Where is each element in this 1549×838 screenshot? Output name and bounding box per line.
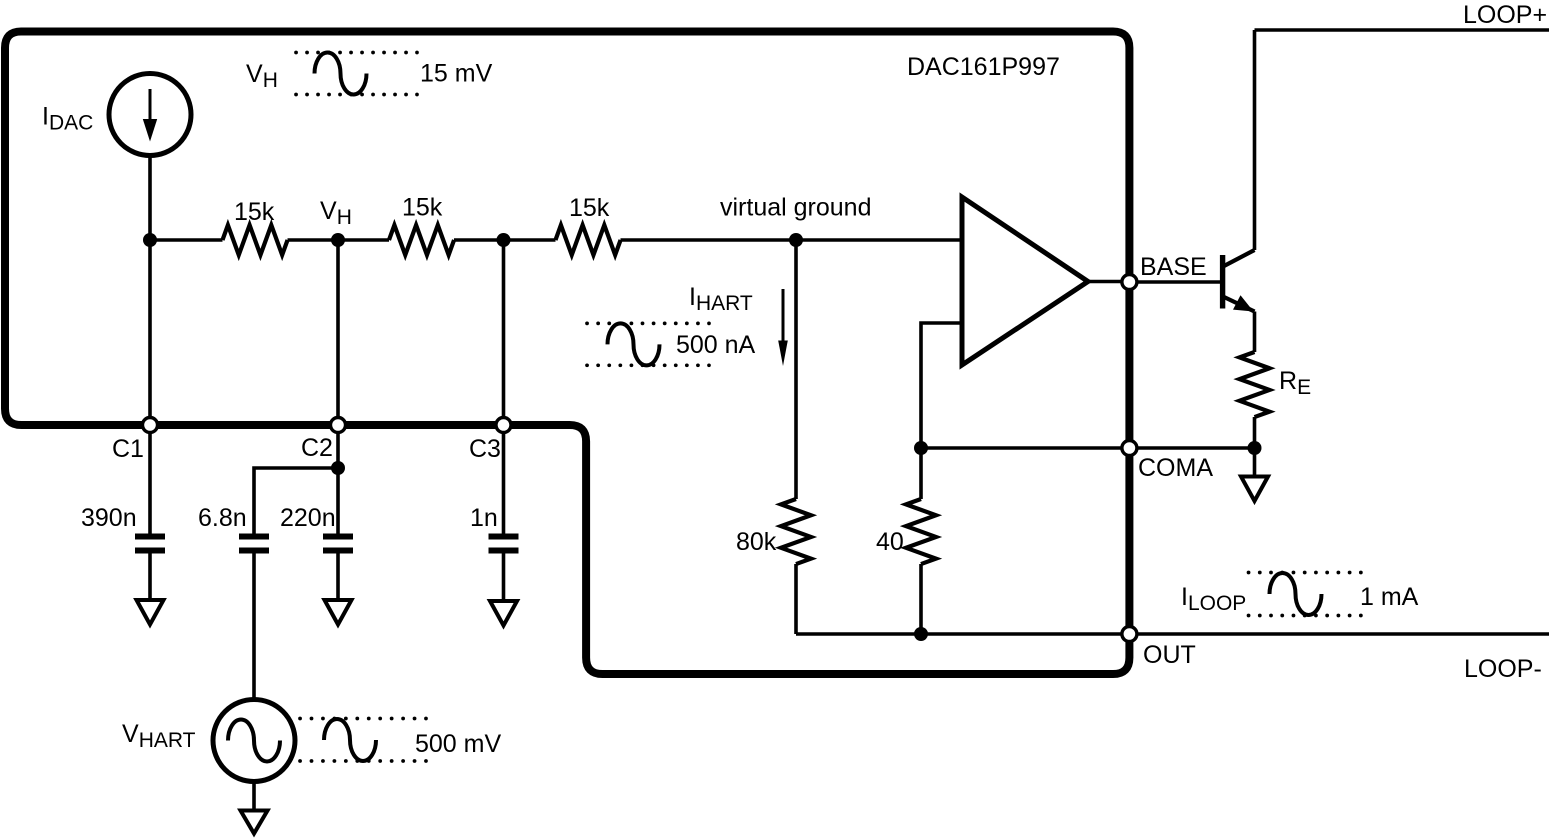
- pin COMA: [1122, 441, 1137, 456]
- svg-text:IDAC: IDAC: [42, 103, 93, 135]
- svg-text:OUT: OUT: [1143, 641, 1196, 669]
- wire COMA row: [921, 446, 1254, 450]
- svg-text:80k: 80k: [736, 528, 777, 556]
- VH stimulus dotted box with sine, 15 mV: [296, 53, 493, 95]
- wire 6.8n to VHART source: [252, 554, 256, 701]
- svg-text:1n: 1n: [470, 504, 498, 532]
- svg-text:6.8n: 6.8n: [198, 504, 247, 532]
- node bottom rail: [914, 627, 928, 641]
- wire RE to COMA row: [1253, 417, 1257, 448]
- svg-text:390n: 390n: [81, 504, 137, 532]
- ground C1: [137, 600, 164, 625]
- wire R1 to R2: [288, 238, 390, 242]
- pin OUT: [1122, 627, 1137, 642]
- capacitor 6.8n: [239, 537, 269, 551]
- node RE / COMA: [1248, 441, 1262, 455]
- capacitor 390n: [135, 537, 165, 551]
- svg-text:RE: RE: [1279, 367, 1311, 399]
- svg-text:VHART: VHART: [122, 720, 196, 752]
- pin C2: [331, 418, 346, 433]
- IHART stimulus dotted box with sine, 500 nA: [587, 323, 756, 365]
- wire C2 pin down through node: [336, 425, 340, 534]
- wire C3 pin to cap: [502, 425, 506, 534]
- node C2 / 6.8n: [331, 461, 345, 475]
- svg-text:ILOOP: ILOOP: [1181, 583, 1246, 615]
- wire virtual ground down to 80k: [794, 240, 798, 499]
- wire BASE to transistor: [1129, 280, 1223, 284]
- ILOOP stimulus dotted box with sine, 1 mA: [1249, 573, 1419, 616]
- svg-text:COMA: COMA: [1138, 454, 1213, 482]
- VHART stimulus dotted box with sine, 500 mV: [300, 719, 501, 762]
- resistor R3 15k: [556, 225, 621, 255]
- wire op-amp inverting input: [921, 323, 962, 499]
- pin C1: [143, 418, 158, 433]
- node VH (C2 tap): [331, 233, 345, 247]
- wire collector to LOOP+: [1253, 30, 1257, 250]
- wire emitter to RE: [1253, 312, 1257, 353]
- op-amp U1: [962, 197, 1088, 365]
- wire OUT rail / LOOP-: [796, 632, 1549, 636]
- svg-text:virtual ground: virtual ground: [720, 194, 871, 222]
- current source IDAC: [109, 74, 191, 156]
- pin C3: [496, 418, 511, 433]
- wire cap to ground: [336, 554, 340, 601]
- svg-text:VH: VH: [320, 197, 352, 229]
- capacitor 220n: [323, 537, 353, 551]
- svg-text:500 nA: 500 nA: [676, 331, 756, 359]
- svg-text:LOOP+: LOOP+: [1463, 1, 1547, 29]
- node 40-resistor top / COMA: [914, 441, 928, 455]
- resistor 80k: [781, 499, 811, 564]
- transistor Q1 (NPN): [1223, 250, 1255, 312]
- source VHART: [213, 700, 295, 782]
- ground 220n: [325, 600, 352, 625]
- capacitor 1n: [489, 537, 519, 551]
- wire VHART to ground: [252, 782, 256, 811]
- svg-text:LOOP-: LOOP-: [1464, 655, 1542, 683]
- svg-text:15k: 15k: [569, 194, 610, 222]
- svg-text:BASE: BASE: [1140, 253, 1207, 281]
- wire 80k to bottom rail: [794, 564, 798, 634]
- svg-text:C2: C2: [301, 434, 333, 462]
- svg-text:500 mV: 500 mV: [415, 730, 501, 758]
- ground RE: [1253, 448, 1257, 477]
- ground VHART: [241, 811, 268, 834]
- node virtual ground: [789, 233, 803, 247]
- wire IDAC to C1 pin: [148, 154, 152, 425]
- resistor 40: [906, 499, 936, 564]
- wire cap to ground: [148, 554, 152, 601]
- svg-text:C3: C3: [469, 435, 501, 463]
- IHART current arrow: [778, 289, 788, 366]
- DAC161P997 device boundary: [5, 32, 1129, 675]
- wire VH node to C2 pin: [336, 240, 340, 425]
- wire op-amp output to BASE: [1088, 280, 1129, 284]
- resistor R2 15k: [389, 225, 454, 255]
- svg-text:VH: VH: [246, 60, 278, 92]
- svg-text:40: 40: [876, 528, 904, 556]
- wire R3 to op-amp + input: [621, 238, 963, 242]
- svg-text:15 mV: 15 mV: [420, 60, 493, 88]
- svg-text:15k: 15k: [402, 194, 443, 222]
- node C3 tap: [497, 233, 511, 247]
- resistor R1 15k: [223, 225, 288, 255]
- node A (IDAC / C1): [143, 233, 157, 247]
- svg-text:220n: 220n: [280, 504, 336, 532]
- wire jog to 6.8n branch: [254, 468, 338, 534]
- wire node to C3 pin: [502, 240, 506, 425]
- svg-text:IHART: IHART: [689, 283, 753, 315]
- wire node A to R1: [150, 238, 223, 242]
- wire 40 to bottom rail: [919, 564, 923, 634]
- wire LOOP+: [1255, 28, 1549, 32]
- resistor RE: [1240, 352, 1270, 417]
- svg-text:C1: C1: [112, 435, 144, 463]
- svg-text:1 mA: 1 mA: [1360, 583, 1419, 611]
- pin BASE: [1122, 275, 1137, 290]
- wire R2 to R3: [454, 238, 556, 242]
- svg-text:15k: 15k: [234, 198, 275, 226]
- svg-text:DAC161P997: DAC161P997: [907, 53, 1060, 81]
- ground 1n: [490, 601, 517, 626]
- wire cap to ground: [502, 554, 506, 602]
- wire C1 pin to cap: [148, 425, 152, 534]
